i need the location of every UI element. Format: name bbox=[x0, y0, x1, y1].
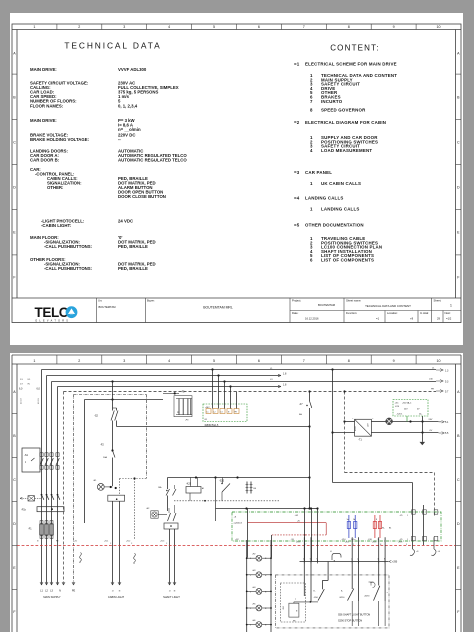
lamp rail right top bbox=[271, 535, 273, 558]
label L1 L2 L3 N main supply bbox=[40, 590, 75, 599]
svg-text:D: D bbox=[457, 522, 460, 526]
svg-text:=1: =1 bbox=[294, 62, 300, 67]
svg-text:SPEED GOVERNOR: SPEED GOVERNOR bbox=[321, 108, 366, 113]
svg-text:1: 1 bbox=[33, 25, 35, 29]
svg-text:LANDING CALLS: LANDING CALLS bbox=[321, 207, 359, 212]
svg-text:-F26: -F26 bbox=[395, 406, 399, 408]
wire L2 bus bbox=[47, 374, 282, 585]
dashed aux row bbox=[174, 500, 280, 502]
svg-text:6: 6 bbox=[310, 258, 313, 263]
shaft lamps ladder bbox=[246, 540, 272, 632]
svg-text:PE: PE bbox=[72, 590, 76, 593]
wires S56 column bbox=[304, 562, 328, 602]
svg-text:-X5: -X5 bbox=[400, 539, 403, 541]
svg-text:+8: +8 bbox=[410, 317, 414, 321]
svg-text:ELECTRICAL DIAGRAM FOR CABIN: ELECTRICAL DIAGRAM FOR CABIN bbox=[305, 120, 386, 125]
wire long drop right bbox=[333, 483, 413, 550]
page 1 sheet background bbox=[10, 13, 463, 345]
wire drop to S2 bbox=[113, 382, 117, 411]
svg-text:3: 3 bbox=[123, 359, 125, 363]
svg-text:-X5: -X5 bbox=[400, 515, 403, 517]
svg-text:BRAKE HOLDING VOLTAGE:: BRAKE HOLDING VOLTAGE: bbox=[30, 137, 90, 142]
terminal arrows cabin light bbox=[108, 582, 125, 599]
svg-text:9: 9 bbox=[406, 544, 407, 546]
svg-text:=5: =5 bbox=[294, 223, 300, 228]
svg-text:1: 1 bbox=[250, 625, 251, 627]
svg-text:TECHNICAL DATA AND CONTENT: TECHNICAL DATA AND CONTENT bbox=[365, 304, 411, 308]
svg-text:Buyer:: Buyer: bbox=[147, 299, 155, 303]
svg-text:4: 4 bbox=[310, 148, 313, 153]
red label row bbox=[235, 539, 295, 541]
button station enclosure bbox=[276, 575, 390, 628]
svg-text:7: 7 bbox=[316, 558, 317, 560]
svg-text:ELECTRICAL SCHEME FOR MAIN DRI: ELECTRICAL SCHEME FOR MAIN DRIVE bbox=[305, 62, 397, 67]
svg-text:-W50M 5G1,5: -W50M 5G1,5 bbox=[204, 425, 219, 427]
svg-text:L1: L1 bbox=[207, 412, 209, 414]
svg-text:9: 9 bbox=[393, 25, 395, 29]
svg-text:-X1.2: -X1.2 bbox=[126, 541, 130, 543]
svg-text:INCURTO: INCURTO bbox=[321, 99, 343, 104]
svg-text:-CALL PUSHBUTTONS:: -CALL PUSHBUTTONS: bbox=[44, 266, 93, 271]
svg-text:-X5: -X5 bbox=[297, 521, 300, 523]
svg-text:+290: +290 bbox=[392, 562, 398, 564]
flexible cable squiggle 2 bbox=[134, 553, 136, 563]
svg-text:-X1.1: -X1.1 bbox=[104, 541, 108, 543]
terminal X0 busbar bbox=[21, 494, 64, 512]
svg-text:8: 8 bbox=[310, 108, 313, 113]
svg-text:LOAD MEASUREMENT: LOAD MEASUREMENT bbox=[321, 148, 372, 153]
node 5.3 arrow bbox=[429, 379, 449, 384]
lamp rail left bbox=[247, 509, 249, 558]
svg-text:DOOR CLOSE BUTTON: DOOR CLOSE BUTTON bbox=[118, 194, 166, 199]
svg-text:-K25: -K25 bbox=[186, 483, 192, 486]
svg-text:1: 1 bbox=[407, 515, 408, 517]
svg-text:24V: 24V bbox=[429, 419, 433, 421]
svg-text:PED, BRAILLE: PED, BRAILLE bbox=[118, 244, 148, 249]
green box +MC terminal X1 bbox=[203, 404, 247, 427]
node 1.3 arrow bbox=[432, 368, 449, 373]
svg-text:D: D bbox=[13, 522, 16, 526]
svg-text:B1: B1 bbox=[389, 528, 391, 530]
svg-text:Sheet name:: Sheet name: bbox=[346, 299, 361, 303]
svg-text:-X20:1: -X20:1 bbox=[397, 414, 404, 416]
relay contact K bottom bbox=[330, 551, 341, 562]
svg-text:2: 2 bbox=[78, 25, 80, 29]
svg-text:L: L bbox=[295, 599, 296, 601]
svg-text:n= __o/min: n= __o/min bbox=[118, 127, 141, 132]
label 6,0 wire gauges bbox=[19, 388, 40, 405]
wire +290 row bbox=[300, 558, 398, 563]
svg-text:-X5:1: -X5:1 bbox=[345, 542, 349, 544]
svg-text:1: 1 bbox=[250, 591, 251, 593]
dashed PE drop to T1 bbox=[343, 392, 354, 423]
svg-text:6: 6 bbox=[258, 25, 260, 29]
svg-text:LANDING CALLS: LANDING CALLS bbox=[305, 196, 343, 201]
svg-text:16A: 16A bbox=[103, 456, 107, 459]
lamp shaft light pilot bbox=[146, 508, 167, 518]
terminal arrows main supply bbox=[40, 582, 75, 585]
svg-text:1: 1 bbox=[250, 558, 251, 560]
wire C extension + rail taps bbox=[245, 507, 318, 509]
dash-dot boundary drop bbox=[146, 395, 148, 479]
svg-text:7: 7 bbox=[303, 25, 305, 29]
cable hook 1 bbox=[410, 549, 419, 556]
wires S290 column bbox=[379, 562, 385, 627]
net labels at shaft boundary bbox=[37, 541, 168, 545]
svg-text:5: 5 bbox=[213, 359, 215, 363]
net labels below zone bbox=[296, 542, 407, 546]
svg-text:6: 6 bbox=[310, 558, 311, 560]
socket symbol bbox=[372, 418, 393, 425]
svg-text:S56 SHAFT LIGHT BUTTON: S56 SHAFT LIGHT BUTTON bbox=[338, 613, 370, 616]
svg-text:-S1: -S1 bbox=[24, 454, 29, 457]
wire PE2 (dashed branch) bbox=[74, 395, 147, 586]
connector B6 bbox=[246, 482, 257, 494]
svg-text:+SC: +SC bbox=[395, 403, 400, 405]
S56 wires through zone bbox=[305, 509, 318, 562]
svg-text:-X10: -X10 bbox=[368, 539, 372, 541]
wire L1 drop to T1 bbox=[331, 370, 354, 483]
svg-text:CONTENT:: CONTENT: bbox=[330, 44, 380, 53]
breaker F3 block bbox=[163, 392, 192, 422]
wire row C bbox=[216, 478, 311, 522]
svg-text:10: 10 bbox=[437, 359, 441, 363]
svg-text:4: 4 bbox=[168, 359, 170, 363]
svg-text:24 VDC: 24 VDC bbox=[118, 219, 133, 224]
svg-text:Date:: Date: bbox=[292, 311, 299, 315]
svg-text:D: D bbox=[13, 185, 16, 189]
svg-text:-X5:5: -X5:5 bbox=[296, 542, 300, 544]
fuse F2 bbox=[100, 444, 115, 487]
red dashed shaft boundary line bbox=[17, 545, 456, 547]
lamp cabin light bbox=[93, 480, 117, 490]
svg-text:ELEVATORS: ELEVATORS bbox=[36, 319, 71, 322]
svg-text:LIST OF COMPONENTS: LIST OF COMPONENTS bbox=[321, 258, 374, 263]
dashed feeder right bbox=[344, 391, 435, 517]
TELCO logo bbox=[35, 305, 78, 322]
red terminal pair bbox=[368, 515, 392, 541]
green box +SC X20 bbox=[393, 400, 428, 422]
lamp assembly enclosure bbox=[280, 583, 305, 622]
svg-text:1: 1 bbox=[310, 181, 313, 186]
svg-text:-S2: -S2 bbox=[94, 415, 99, 418]
svg-text:D: D bbox=[457, 185, 460, 189]
svg-text:S290 STOP BUTTON: S290 STOP BUTTON bbox=[338, 619, 362, 622]
svg-text:BOUTEMTAM: BOUTEMTAM bbox=[318, 303, 336, 307]
flexible cable squiggle 1 bbox=[80, 553, 82, 563]
svg-text:1: 1 bbox=[33, 359, 35, 363]
switch S290a bbox=[339, 589, 354, 601]
svg-text:In total:: In total: bbox=[420, 311, 429, 315]
earth terminal box bbox=[20, 496, 41, 501]
svg-text:29: 29 bbox=[437, 317, 440, 321]
contacts to shaft light bbox=[168, 505, 177, 521]
label button station bbox=[338, 613, 370, 622]
svg-text:MAIN SUPPLY: MAIN SUPPLY bbox=[43, 595, 61, 599]
svg-text:90-: 90- bbox=[382, 528, 385, 530]
svg-text:CABIN LIGHT: CABIN LIGHT bbox=[108, 595, 125, 599]
svg-text:8: 8 bbox=[348, 359, 350, 363]
wire L3 bus bbox=[52, 380, 437, 585]
svg-text:L1/1.9: L1/1.9 bbox=[38, 398, 40, 404]
svg-text:Location:: Location: bbox=[387, 311, 398, 315]
svg-text:-X20 6A-C: -X20 6A-C bbox=[402, 402, 412, 405]
svg-text:-F2: -F2 bbox=[100, 444, 104, 447]
svg-text:C: C bbox=[13, 140, 16, 144]
svg-text:-S290: -S290 bbox=[364, 596, 370, 598]
big solid cabinet box bbox=[85, 398, 164, 523]
svg-text:=1/2: =1/2 bbox=[446, 317, 452, 321]
svg-text:BOUTEMTAM MRL: BOUTEMTAM MRL bbox=[203, 306, 233, 310]
svg-text:PED, BRAILLE: PED, BRAILLE bbox=[118, 266, 148, 271]
svg-text:-X1: -X1 bbox=[74, 541, 77, 543]
svg-text:1: 1 bbox=[450, 304, 452, 308]
wire N return column bbox=[309, 427, 311, 509]
svg-text:1: 1 bbox=[310, 207, 313, 212]
svg-text:2: 2 bbox=[78, 359, 80, 363]
svg-text:MAIN DRIVE:: MAIN DRIVE: bbox=[30, 67, 57, 72]
cable hook 2 bbox=[432, 537, 441, 555]
svg-text:AUTOMATIC REGULATED TELCO: AUTOMATIC REGULATED TELCO bbox=[118, 158, 187, 163]
switch S1 main switch bbox=[22, 448, 59, 472]
svg-text:=4: =4 bbox=[294, 196, 300, 201]
svg-text:Function:: Function: bbox=[346, 311, 357, 315]
svg-text:Next:: Next: bbox=[445, 311, 452, 315]
svg-text:16.12.2016: 16.12.2016 bbox=[305, 317, 319, 321]
svg-text:Sheet:: Sheet: bbox=[434, 299, 442, 303]
page 2 sheet background bbox=[10, 353, 463, 632]
svg-text:C: C bbox=[13, 478, 16, 482]
switch S2 (2-pole) bbox=[94, 411, 118, 451]
red wire X3 bbox=[248, 515, 326, 536]
wire 24V out bbox=[392, 419, 449, 424]
svg-text:7: 7 bbox=[310, 99, 313, 104]
svg-text:-X10: -X10 bbox=[342, 539, 346, 541]
svg-text:-X5:8: -X5:8 bbox=[398, 542, 402, 544]
svg-text:MAIN DRIVE:: MAIN DRIVE: bbox=[30, 118, 57, 123]
black columns through zone bbox=[400, 505, 424, 545]
svg-text:230V: 230V bbox=[355, 426, 357, 431]
svg-text:1: 1 bbox=[250, 575, 251, 577]
wire 0V out bbox=[372, 430, 449, 435]
svg-text:SHAFT LIGHT: SHAFT LIGHT bbox=[163, 595, 180, 599]
svg-text:Project:: Project: bbox=[292, 299, 301, 303]
blue terminal pair bbox=[342, 515, 357, 541]
svg-text:-CABIN LIGHT:: -CABIN LIGHT: bbox=[41, 223, 72, 228]
svg-text:9: 9 bbox=[393, 359, 395, 363]
terminal arrows shaft light bbox=[163, 582, 180, 599]
terminal box cabin light bbox=[108, 495, 125, 585]
svg-text:-S290: -S290 bbox=[339, 597, 345, 599]
svg-text:N: N bbox=[59, 590, 61, 593]
svg-text:UK CABIN CALLS: UK CABIN CALLS bbox=[321, 181, 361, 186]
wires zone to 290 row bbox=[304, 537, 385, 561]
svg-text:4: 4 bbox=[168, 25, 170, 29]
svg-text:CAR PANEL: CAR PANEL bbox=[305, 170, 332, 175]
svg-text:A1: A1 bbox=[202, 487, 204, 490]
terminal box shaft light bbox=[164, 523, 178, 585]
svg-text:CAR DOOR B:: CAR DOOR B: bbox=[30, 158, 60, 163]
svg-text:L2: L2 bbox=[214, 412, 216, 414]
contact K20 left bbox=[158, 478, 176, 512]
svg-text:-F1b: -F1b bbox=[21, 509, 27, 512]
svg-text:OTHER:: OTHER: bbox=[47, 185, 64, 190]
svg-text:1: 1 bbox=[250, 608, 251, 610]
switch S56 bbox=[294, 589, 324, 603]
svg-text:L1/1.9: L1/1.9 bbox=[21, 398, 23, 404]
svg-text:=Q100-S: =Q100-S bbox=[234, 523, 243, 525]
svg-text:-T1: -T1 bbox=[358, 439, 362, 442]
svg-text:=1: =1 bbox=[376, 317, 380, 321]
svg-text:C: C bbox=[457, 140, 460, 144]
svg-text:TELC: TELC bbox=[35, 305, 69, 320]
label wire refs left bbox=[20, 379, 31, 386]
svg-text:1: 1 bbox=[407, 539, 408, 541]
svg-text:-S20: -S20 bbox=[219, 480, 225, 483]
wire relay row bbox=[168, 476, 311, 478]
switch S20 bbox=[219, 478, 230, 501]
svg-text:2: 2 bbox=[353, 544, 354, 546]
wire L1 bus bbox=[42, 368, 437, 585]
svg-text:VVVF ADL300: VVVF ADL300 bbox=[118, 67, 147, 72]
transformer T1 bbox=[352, 418, 374, 442]
tick boxes on zone borders bbox=[412, 510, 438, 541]
ground bbox=[420, 416, 426, 445]
svg-text:-X5:3: -X5:3 bbox=[372, 542, 376, 544]
svg-text:3: 3 bbox=[123, 25, 125, 29]
dashed PE drop cabin bbox=[120, 477, 147, 540]
fuse F1 bank bbox=[28, 521, 53, 539]
svg-text:Un:: Un: bbox=[98, 299, 102, 303]
svg-text:FLOOR NAMES:: FLOOR NAMES: bbox=[30, 104, 64, 109]
lamp box E56 bbox=[283, 599, 299, 623]
relay coil K25 bbox=[186, 478, 204, 501]
svg-text:8: 8 bbox=[348, 25, 350, 29]
svg-text:7: 7 bbox=[303, 359, 305, 363]
svg-text:=3: =3 bbox=[294, 170, 300, 175]
switch S290 stop button bbox=[364, 582, 389, 601]
green zone Q100 bbox=[232, 512, 441, 541]
wire N bus bbox=[58, 385, 282, 585]
svg-text:BOUTEMTAM: BOUTEMTAM bbox=[99, 305, 117, 309]
svg-text:OTHER DOCUMENTATION: OTHER DOCUMENTATION bbox=[305, 223, 364, 228]
wires S290a column bbox=[352, 562, 358, 627]
svg-text:=2: =2 bbox=[294, 120, 300, 125]
wire PE bus (dashed) bbox=[64, 390, 437, 585]
node 5.7 arrow (PE) bbox=[431, 389, 449, 394]
svg-text:L3: L3 bbox=[221, 412, 223, 414]
svg-text:0, 1, 2,3,4: 0, 1, 2,3,4 bbox=[118, 104, 138, 109]
svg-text:-CALL PUSHBUTTONS:: -CALL PUSHBUTTONS: bbox=[44, 244, 93, 249]
wire 0V row to F7 bbox=[117, 425, 311, 427]
svg-text:C: C bbox=[457, 478, 460, 482]
svg-text:1b: 1b bbox=[353, 519, 355, 521]
svg-text:J: J bbox=[25, 462, 26, 464]
svg-text:-X56: -X56 bbox=[283, 606, 285, 610]
svg-text:5: 5 bbox=[303, 558, 304, 560]
svg-text:8: 8 bbox=[376, 519, 377, 521]
svg-text:-X1.3: -X1.3 bbox=[160, 541, 164, 543]
breaker F7 bbox=[299, 392, 312, 427]
svg-text:10: 10 bbox=[437, 25, 441, 29]
svg-text:5: 5 bbox=[213, 25, 215, 29]
svg-text:TECHNICAL DATA: TECHNICAL DATA bbox=[64, 41, 161, 51]
node 1.8 arrows bbox=[270, 368, 287, 388]
stubs buses to X1 bbox=[213, 370, 237, 409]
svg-text:6: 6 bbox=[258, 359, 260, 363]
